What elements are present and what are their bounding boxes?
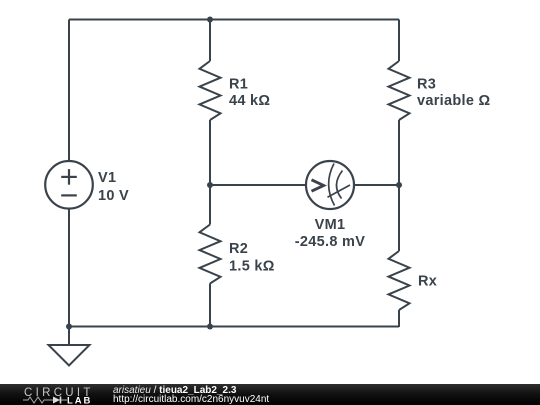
wire bridge left (node to VM1)	[210, 184, 306, 186]
attribution text	[113, 386, 269, 405]
label R1 44 kΩ	[229, 76, 270, 109]
resistor R3	[389, 61, 410, 120]
wire bottom rail	[69, 326, 399, 328]
resistor Rx	[389, 251, 410, 310]
wire top rail	[69, 19, 399, 21]
svg-text:V1: V1	[98, 170, 116, 186]
svg-text:VM1: VM1	[315, 217, 346, 233]
label R2 1.5 kΩ	[229, 241, 275, 275]
wire ground stub	[68, 327, 70, 345]
svg-text:Rx: Rx	[418, 273, 437, 289]
wire right branch top (top rail to R3)	[398, 20, 400, 62]
junction node bridge left	[207, 182, 213, 188]
wire right branch mid (R3 to Rx through node)	[398, 120, 400, 251]
svg-text:R2: R2	[229, 241, 248, 257]
label R3 variable Ω	[417, 76, 491, 109]
wire middle branch bottom (R2 to bottom rail)	[209, 284, 211, 328]
label V1 10 V	[98, 170, 129, 204]
footer attribution bar	[0, 384, 540, 405]
label Rx	[418, 273, 437, 289]
resistor R2	[200, 225, 221, 284]
label VM1 -245.8 mV	[295, 217, 365, 250]
wire left upper (top rail to V1)	[68, 20, 70, 162]
wire middle branch top (top rail to R1)	[209, 20, 211, 62]
svg-text:-245.8 mV: -245.8 mV	[295, 234, 365, 250]
svg-text:variable Ω: variable Ω	[417, 93, 491, 109]
voltage source V1	[45, 161, 93, 209]
svg-text:R1: R1	[229, 76, 248, 92]
wire bridge right (VM1 to node)	[354, 184, 399, 186]
svg-text:R3: R3	[417, 76, 436, 92]
svg-text:10 V: 10 V	[98, 188, 129, 204]
svg-text:44 kΩ: 44 kΩ	[229, 93, 270, 109]
wire right branch bottom (Rx to bottom rail)	[398, 310, 400, 327]
voltmeter VM1	[306, 161, 354, 209]
resistor R1	[200, 61, 221, 120]
junction node ground	[66, 324, 72, 330]
junction node top (R1/R3 top rail)	[207, 17, 213, 23]
ground symbol	[49, 345, 90, 366]
wire left lower (V1 to bottom rail)	[68, 208, 70, 327]
junction node bottom middle	[207, 324, 213, 330]
junction node bridge right	[396, 182, 402, 188]
svg-text:1.5 kΩ: 1.5 kΩ	[229, 259, 275, 275]
CircuitLab logo	[0, 384, 110, 405]
svg-text:LAB: LAB	[67, 396, 92, 405]
wire middle branch mid (R1 to R2 through node)	[209, 120, 211, 225]
